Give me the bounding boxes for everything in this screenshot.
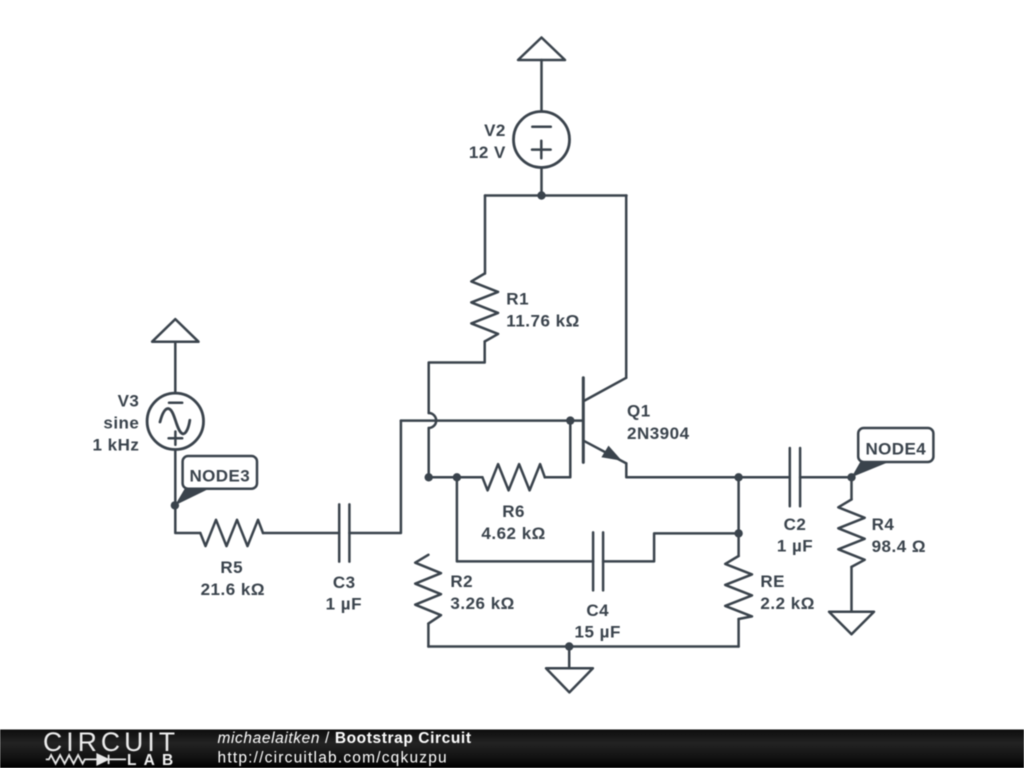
logo resistor-diode symbol <box>46 754 126 764</box>
wire hop to R2 node <box>427 428 430 477</box>
svg-text:C3: C3 <box>333 573 356 592</box>
wire ground stub <box>568 647 571 669</box>
svg-text:NODE3: NODE3 <box>190 467 251 486</box>
svg-text:http://circuitlab.com/cqkuzpu: http://circuitlab.com/cqkuzpu <box>218 750 448 767</box>
svg-text:R4: R4 <box>872 515 895 534</box>
wire V2 top <box>540 60 543 112</box>
svg-text:michaelaitken / Bootstrap Circ: michaelaitken / Bootstrap Circuit <box>218 730 472 747</box>
wire V2 bottom <box>540 168 543 196</box>
svg-text:12 V: 12 V <box>469 143 506 162</box>
wire base <box>401 419 583 422</box>
svg-text:21.6 kΩ: 21.6 kΩ <box>201 580 265 599</box>
svg-text:R1: R1 <box>506 290 529 309</box>
ground symbol R4 <box>829 612 874 635</box>
resistor R1 <box>471 274 498 342</box>
node junction C4 right <box>734 529 742 537</box>
svg-text:NODE4: NODE4 <box>866 439 927 458</box>
svg-text:R2: R2 <box>450 572 473 591</box>
svg-text:1 µF: 1 µF <box>777 537 813 556</box>
capacitor C2 <box>739 448 852 506</box>
voltage source V3 <box>147 393 203 449</box>
node junction at V2 bottom <box>537 191 545 199</box>
svg-text:V2: V2 <box>484 121 506 140</box>
svg-text:2N3904: 2N3904 <box>627 424 690 443</box>
node junction R1/R2/R6 <box>425 473 433 481</box>
resistor R4 <box>838 477 864 612</box>
node junction emitter <box>734 473 742 481</box>
node junction NODE4 <box>847 473 855 481</box>
wire emitter <box>626 463 738 477</box>
node junction C4 left <box>453 473 461 481</box>
wire RE bottom <box>737 619 740 647</box>
capacitor C4 <box>457 477 739 590</box>
svg-text:C2: C2 <box>784 515 807 534</box>
svg-text:sine: sine <box>103 413 139 432</box>
svg-text:LAB: LAB <box>127 752 180 768</box>
wire R2 bottom <box>427 624 430 647</box>
resistor RE <box>725 556 752 619</box>
schematic text labels <box>92 121 926 641</box>
svg-text:11.76 kΩ: 11.76 kΩ <box>506 312 579 331</box>
wire V3 to R5 <box>175 450 200 534</box>
wire to R1 top <box>484 196 487 274</box>
wire to R6 <box>429 476 483 479</box>
svg-text:2.2 kΩ: 2.2 kΩ <box>760 594 814 613</box>
svg-text:R5: R5 <box>220 558 243 577</box>
resistor R6 <box>482 464 544 490</box>
wire collector <box>625 196 628 378</box>
capacitor C3 <box>338 504 341 561</box>
transistor Q1 <box>583 378 626 464</box>
resistor R5 <box>200 520 263 546</box>
wire V3 top <box>174 342 177 393</box>
svg-text:3.26 kΩ: 3.26 kΩ <box>450 594 514 613</box>
ground symbol center <box>546 668 593 692</box>
power symbol VCC (top of V2) <box>518 38 565 61</box>
svg-text:V3: V3 <box>118 392 140 411</box>
svg-text:R6: R6 <box>502 502 525 521</box>
wire emitter to RE <box>737 477 740 556</box>
wire R1 bottom to hop <box>429 342 485 414</box>
svg-text:1 µF: 1 µF <box>326 595 362 614</box>
wire R6 to base <box>545 421 571 478</box>
svg-text:RE: RE <box>760 572 785 591</box>
svg-text:1 kHz: 1 kHz <box>92 435 139 454</box>
node label NODE3 <box>175 456 257 505</box>
node label NODE4 <box>852 428 934 477</box>
node junction NODE3 <box>171 501 179 509</box>
voltage source V2 <box>514 112 570 168</box>
svg-text:4.62 kΩ: 4.62 kΩ <box>481 524 545 543</box>
footer bar <box>0 730 1024 768</box>
wire C3 to base <box>349 421 401 533</box>
svg-text:98.4 Ω: 98.4 Ω <box>872 537 926 556</box>
wire top rail <box>485 194 627 197</box>
node junction ground <box>565 642 573 650</box>
power symbol at V3 <box>152 319 198 342</box>
node junction base <box>566 416 574 424</box>
wire hop over base wire <box>429 413 437 428</box>
svg-text:C4: C4 <box>586 601 609 620</box>
wire R5 to C3 <box>263 532 339 535</box>
resistor R2 <box>415 555 441 624</box>
svg-text:15 µF: 15 µF <box>575 623 621 642</box>
wire ground bus <box>428 645 738 648</box>
svg-text:Q1: Q1 <box>627 402 651 421</box>
